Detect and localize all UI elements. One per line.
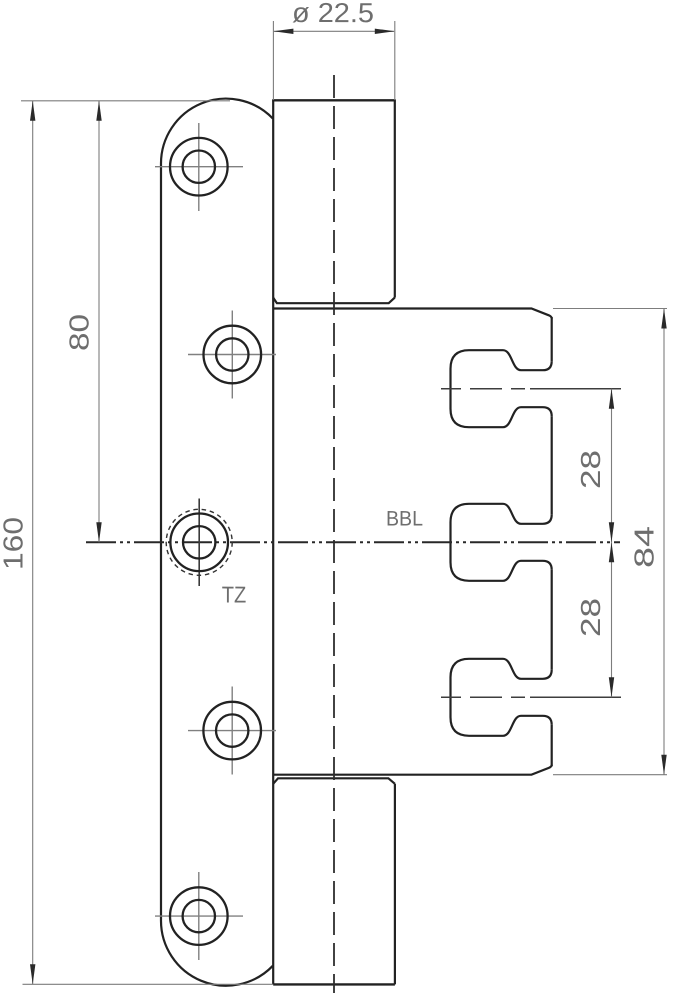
dim 28 upper bottom arrow: [609, 522, 614, 542]
svg-text:84: 84: [629, 526, 660, 568]
dim 80 line: [98, 101, 100, 543]
svg-text:BBL: BBL: [386, 508, 423, 531]
barrel bottom edge: [273, 983, 395, 985]
screw hole 5 crosshair: [155, 872, 243, 960]
dim 84 extension lines: [553, 309, 667, 775]
dim 160 top arrow: [30, 101, 35, 121]
dim 160 top extension line: [21, 100, 230, 102]
cutout 1 (upper keyhole slot): [451, 350, 552, 427]
dim 80 bottom arrow: [96, 522, 101, 542]
dim 160 line: [32, 101, 34, 985]
screw hole 2: [204, 326, 262, 384]
frame leaf bottom edge: [273, 765, 552, 775]
dim 28 lower line: [611, 542, 613, 697]
screw hole 1: [170, 138, 228, 196]
dim ø22.5 line: [274, 30, 394, 32]
screw hole 4 crosshair: [188, 687, 276, 775]
dim 84 line: [663, 309, 665, 775]
barrel top knuckle bottom edge: [273, 298, 395, 304]
screw hole 3 TZ vertical crosshair: [198, 499, 200, 587]
dim 28 lower bottom arrow: [609, 677, 614, 697]
barrel top edge: [272, 99, 396, 101]
svg-text:ø 22.5: ø 22.5: [292, 0, 374, 28]
svg-text:160: 160: [0, 517, 29, 570]
frame leaf right edge segments: [551, 317, 553, 766]
dim ø22.5 extension lines: [273, 21, 394, 100]
dim 160 bottom extension line: [23, 983, 274, 985]
cutout 2 (middle keyhole slot): [451, 504, 552, 581]
dim 28 upper line: [611, 389, 613, 543]
frame leaf top edge: [273, 309, 552, 319]
cutout 3 center dashed line: [441, 696, 621, 698]
dim ø22.5 right arrow: [375, 29, 395, 34]
dim 80 top arrow: [96, 101, 101, 121]
barrel dashed center line: [333, 75, 335, 993]
screw hole 2 crosshair: [188, 311, 276, 399]
dim 28 lower top arrow: [609, 542, 614, 562]
cutout 1 center dashed line: [441, 388, 621, 390]
barrel bottom knuckle top edge: [273, 778, 395, 784]
dim 160 bottom arrow: [30, 964, 35, 984]
svg-text:28: 28: [575, 450, 606, 489]
barrel top knuckle right edge: [394, 100, 396, 297]
svg-text:TZ: TZ: [222, 582, 247, 608]
svg-text:28: 28: [575, 598, 606, 637]
svg-text:80: 80: [64, 314, 95, 351]
cutout 3 (lower keyhole slot): [451, 659, 552, 736]
screw hole 5: [170, 887, 228, 945]
dim ø22.5 left arrow: [273, 29, 293, 34]
screw hole 3 dashed circle: [166, 509, 232, 575]
dim 84 bottom arrow: [661, 755, 666, 775]
dim 84 top arrow: [661, 309, 666, 329]
screw hole 1 crosshair: [155, 123, 243, 211]
main horizontal center line BBL: [86, 541, 620, 543]
barrel bottom knuckle right edge: [394, 784, 396, 985]
dim 28 upper top arrow: [609, 389, 614, 409]
door leaf rounded plate: [161, 99, 273, 986]
screw hole 3: [170, 514, 228, 572]
barrel left edge: [272, 100, 274, 984]
screw hole 4: [203, 702, 261, 760]
